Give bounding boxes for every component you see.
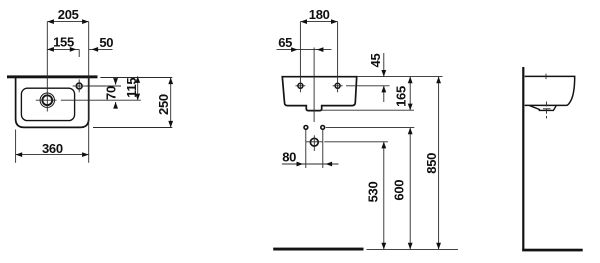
svg-text:115: 115: [124, 78, 139, 98]
svg-text:360: 360: [42, 141, 63, 156]
dimension 600: [409, 128, 411, 250]
basin side profile: [525, 76, 575, 105]
drain extension line right: [61, 99, 141, 101]
tap extension line right: [86, 85, 121, 87]
drain centerline vertical: [46, 22, 48, 112]
dimension 155: [47, 48, 79, 50]
fixing bolt left: [304, 126, 308, 130]
drain pipe circle: [310, 138, 318, 146]
svg-text:250: 250: [156, 94, 171, 115]
outer basin outline: [16, 77, 89, 128]
floor thin extension line: [367, 248, 459, 250]
dimension 80: [282, 163, 339, 165]
wall line (thick back edge): [7, 75, 98, 78]
left extension line for 360: [15, 130, 17, 163]
svg-text:45: 45: [368, 54, 383, 68]
right mounting hole: [335, 83, 340, 88]
svg-text:205: 205: [58, 7, 79, 22]
svg-text:850: 850: [424, 153, 439, 174]
basin front outline with siphon stub: [282, 77, 356, 111]
left hole centerline: [299, 22, 301, 93]
dimension 180: [300, 21, 337, 23]
extension line top edge right: [357, 76, 443, 78]
drain crosshair horizontal: [36, 99, 57, 101]
right hole centerline: [337, 22, 339, 93]
dimension 530: [383, 142, 385, 250]
svg-text:50: 50: [99, 35, 113, 50]
floor slab (thick): [273, 248, 363, 251]
svg-text:530: 530: [366, 182, 381, 203]
dimension 250: [170, 78, 172, 128]
svg-text:600: 600: [392, 180, 407, 201]
drain centerline dashes: [546, 102, 548, 119]
svg-text:80: 80: [282, 150, 296, 165]
drain inner ring: [42, 95, 52, 105]
extension line drain pipe right: [324, 141, 388, 143]
siphon stub side: [530, 106, 556, 111]
dimension 65: [277, 49, 332, 51]
drain outer circle: [40, 93, 54, 107]
dimension 360: [16, 154, 89, 156]
right extension line (basin right edge, long): [88, 22, 90, 163]
extension line stub bottom: [322, 109, 414, 111]
dimension 205: [47, 21, 88, 23]
tap hole crosshair: [73, 85, 86, 87]
svg-text:165: 165: [393, 86, 408, 107]
tap hole circle: [76, 83, 82, 89]
top extension line (back edge): [100, 77, 172, 79]
dimension 165: [409, 77, 411, 111]
svg-text:180: 180: [309, 7, 330, 22]
svg-text:155: 155: [53, 35, 74, 50]
dimension 115: [137, 76, 139, 100]
extension line hole right: [346, 85, 390, 87]
bottom extension line (basin front edge): [93, 127, 172, 129]
left mounting hole: [298, 83, 303, 88]
tap centerline upper segment: [78, 49, 80, 57]
wall line: [522, 67, 524, 251]
svg-text:65: 65: [278, 35, 292, 50]
dimension 70: [115, 79, 117, 85]
svg-text:70: 70: [104, 86, 119, 100]
dimension 50: [89, 48, 113, 50]
fixing bolt right: [321, 126, 325, 130]
drain centerline (through basin): [313, 48, 315, 123]
extension line bolts right: [326, 127, 415, 129]
drain pipe crosshair: [306, 141, 323, 143]
floor line: [522, 249, 583, 252]
inner basin outline: [21, 88, 74, 120]
rim centerline dash: [545, 74, 547, 80]
dimension 45: [383, 53, 385, 77]
dimension 850: [438, 77, 440, 250]
bolt extension lines down: [305, 130, 307, 168]
